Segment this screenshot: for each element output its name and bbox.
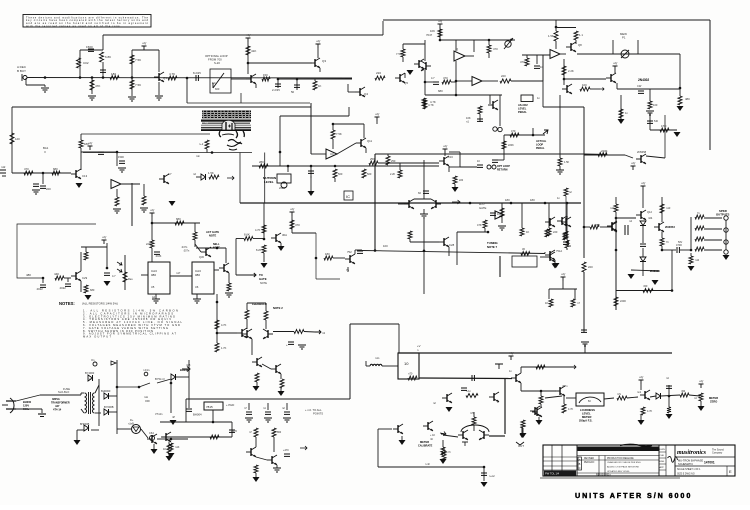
- label 2N3055: [650, 269, 660, 273]
- svg-text:+V: +V: [290, 208, 295, 212]
- svg-text:Q1: Q1: [163, 76, 167, 80]
- svg-text:220K: 220K: [601, 149, 608, 153]
- +V supply: [290, 208, 296, 217]
- resistor n13: [660, 204, 664, 213]
- label 1500: [118, 155, 124, 159]
- svg-text:752: 752: [347, 250, 352, 254]
- label U3: [330, 152, 334, 156]
- junction: [439, 39, 442, 42]
- capacitor: [461, 388, 467, 390]
- label 1n0: [567, 245, 572, 248]
- ground: [245, 418, 253, 422]
- capacitor: [98, 152, 104, 154]
- svg-text:POINTS: POINTS: [313, 412, 323, 416]
- label LFO: [479, 202, 485, 206]
- resistor: [110, 76, 119, 80]
- junction: [455, 80, 458, 83]
- transistor n1n: [393, 424, 403, 434]
- svg-text:220: 220: [376, 71, 381, 75]
- wire: [26, 84, 45, 86]
- transistor: [252, 357, 262, 367]
- svg-text:10: 10: [404, 361, 409, 366]
- label 180: [505, 198, 510, 202]
- transistor n57: [555, 386, 565, 396]
- svg-text:GATE: GATE: [479, 206, 487, 210]
- wire: [640, 384, 642, 390]
- label .0022: [59, 286, 66, 290]
- svg-text:BY000B: BY000B: [104, 405, 114, 409]
- label 50: [291, 90, 295, 94]
- label BH000: [23, 400, 32, 404]
- wire: [616, 217, 636, 219]
- ground: [225, 293, 233, 297]
- ground: [581, 342, 589, 346]
- wire: [280, 374, 282, 379]
- capacitor: [357, 251, 363, 253]
- wire: [448, 166, 450, 172]
- label 4.7: [112, 274, 116, 278]
- svg-text:C7: C7: [168, 172, 172, 176]
- ground: [278, 391, 285, 396]
- label 7.5K: [396, 52, 402, 56]
- wire: [424, 40, 426, 61]
- svg-text:1n0: 1n0: [567, 245, 572, 248]
- wire: [455, 61, 457, 95]
- svg-text:C13: C13: [82, 174, 88, 178]
- wire: [448, 247, 450, 256]
- svg-text:1.5K: 1.5K: [564, 161, 569, 164]
- wire: [584, 226, 590, 228]
- +V supply: [102, 236, 108, 245]
- junction: [263, 238, 266, 241]
- wire: [376, 121, 378, 124]
- ground: [193, 299, 201, 303]
- label n7n: [617, 393, 622, 396]
- wire top bus A: [103, 34, 383, 36]
- ground: [74, 440, 81, 445]
- wire: [574, 289, 576, 299]
- wire: [536, 55, 538, 64]
- label n50: [681, 390, 686, 393]
- wire y378: [419, 377, 512, 380]
- wire: [410, 241, 439, 243]
- wire: [650, 396, 656, 397]
- resistor 220: [582, 262, 586, 272]
- svg-text:n57n: n57n: [562, 385, 568, 388]
- label n7: [577, 301, 580, 305]
- wire: [725, 220, 727, 250]
- svg-text:2N4302: 2N4302: [638, 78, 649, 82]
- label BH000B: [80, 423, 90, 426]
- label NELL: [213, 243, 220, 246]
- wire: [460, 166, 477, 168]
- wire: [661, 197, 663, 222]
- svg-text:120: 120: [15, 137, 20, 141]
- ground: [85, 295, 92, 300]
- ground: [128, 97, 136, 101]
- transistor: [159, 174, 169, 184]
- svg-text:+470: +470: [283, 449, 289, 452]
- capacitor: [647, 121, 653, 123]
- label 4700: [676, 243, 682, 247]
- label 4.7: [431, 76, 435, 80]
- svg-text:7047: 7047: [426, 33, 433, 37]
- label LEVEL: [582, 412, 591, 416]
- wire: [668, 385, 670, 396]
- wire: [80, 49, 103, 51]
- svg-text:METER: METER: [582, 415, 591, 419]
- wire: [143, 184, 145, 196]
- label 280: [259, 160, 264, 164]
- label .007n: [183, 250, 190, 253]
- wire: [489, 95, 491, 104]
- wire: [278, 78, 352, 80]
- wire: [239, 153, 241, 204]
- transistor: [271, 364, 281, 374]
- label n4: [694, 397, 697, 400]
- svg-text:PER ECO: PER ECO: [584, 462, 595, 464]
- wire: [440, 39, 515, 41]
- ground: [32, 190, 40, 194]
- wire: [310, 103, 312, 154]
- svg-text:PEDAL: PEDAL: [518, 110, 527, 114]
- wire: [398, 203, 404, 205]
- svg-text:470: 470: [24, 167, 29, 171]
- capacitor: [88, 49, 94, 51]
- svg-text:1500: 1500: [86, 45, 93, 49]
- wire: [661, 395, 680, 396]
- svg-text:+V: +V: [561, 273, 566, 277]
- wire: [522, 428, 524, 433]
- ground: [298, 345, 306, 349]
- junction: [247, 62, 250, 65]
- wire: [186, 78, 188, 103]
- svg-text:470: 470: [493, 47, 498, 51]
- title block: [540, 444, 735, 478]
- junction: [668, 395, 671, 398]
- wire: [548, 289, 550, 299]
- junction: [79, 76, 82, 79]
- AC plug: [2, 398, 16, 413]
- transistor Q5: [395, 73, 405, 83]
- label n70: [408, 372, 413, 376]
- resistor: [695, 247, 704, 251]
- wire: [267, 403, 269, 410]
- wire right bus: [709, 20, 711, 150]
- label 220K: [601, 149, 608, 153]
- label 680: [90, 288, 95, 292]
- wire: [424, 70, 426, 95]
- wire: [526, 55, 528, 58]
- label n04: [648, 216, 653, 220]
- resistor: [521, 252, 530, 256]
- svg-text:METER: METER: [709, 396, 718, 400]
- label n4: [629, 219, 632, 223]
- wire: [95, 385, 99, 393]
- label OFF: [145, 400, 150, 403]
- svg-text:n7n: n7n: [617, 393, 622, 396]
- capacitor 4700: [677, 247, 679, 253]
- wire: [168, 442, 170, 444]
- wire faint: [81, 133, 210, 135]
- svg-text:220K: 220K: [508, 144, 514, 147]
- label 4.7K: [430, 100, 436, 104]
- wire: [566, 397, 576, 399]
- wire: [151, 248, 153, 262]
- resistor: [442, 451, 446, 460]
- label BH00n: [180, 368, 189, 372]
- transistor Q6: [414, 59, 424, 69]
- label 1.5K: [564, 161, 569, 164]
- wire: [402, 57, 404, 62]
- ground: [440, 459, 447, 464]
- wire: [253, 238, 264, 240]
- wire: [565, 196, 567, 218]
- regulator box: [204, 402, 223, 410]
- svg-text:4.7: 4.7: [112, 274, 116, 278]
- svg-text:+V: +V: [150, 209, 155, 213]
- resistor 4.7K: [262, 225, 266, 233]
- svg-text:50V: 50V: [678, 241, 683, 244]
- inductor T2: [370, 364, 382, 366]
- ground: [170, 420, 177, 425]
- junction: [332, 123, 335, 126]
- junction: [287, 165, 290, 168]
- label C13: [82, 174, 88, 178]
- wire main lamp: [577, 53, 680, 55]
- resistor: [574, 31, 578, 40]
- svg-text:150: 150: [263, 73, 268, 77]
- svg-text:4.7K: 4.7K: [568, 408, 573, 411]
- label Q: [566, 215, 568, 219]
- resistor: [401, 49, 405, 57]
- resistor n1K: [169, 443, 173, 451]
- wire: [456, 80, 472, 82]
- resistor: [255, 373, 259, 382]
- label +: [497, 401, 499, 404]
- svg-text:n.1n: n.1n: [466, 390, 471, 393]
- svg-text:n12: n12: [1, 165, 6, 169]
- label VTn2n: [155, 413, 163, 416]
- wire: [67, 278, 69, 282]
- wire: [555, 20, 557, 31]
- switch box optional loop: [210, 69, 231, 93]
- svg-text:8.2K: 8.2K: [256, 248, 262, 252]
- wire: [649, 89, 651, 101]
- label 1n: [509, 370, 512, 373]
- resistor 250: [386, 156, 390, 165]
- transistor Q12: [636, 210, 646, 220]
- label 7.5K: [135, 83, 141, 87]
- label TRANSFORMER: [51, 402, 70, 405]
- wire: [616, 290, 672, 292]
- label LEVEL: [518, 107, 527, 111]
- wire x375: [374, 154, 376, 250]
- label 752: [347, 250, 352, 254]
- wire: [443, 447, 445, 451]
- wire: [615, 306, 617, 310]
- svg-text:AS-CD2: AS-CD2: [518, 103, 528, 107]
- wire: [280, 243, 282, 246]
- op-amp U2: [550, 50, 560, 59]
- label 7n: [697, 212, 700, 215]
- resistor: [487, 45, 491, 53]
- resistor: [375, 76, 385, 80]
- wire: [216, 294, 218, 343]
- junction: [315, 257, 318, 260]
- svg-text:1K: 1K: [526, 230, 529, 234]
- wire: [277, 79, 279, 88]
- wire sense loop: [17, 224, 96, 278]
- resistor: [695, 226, 704, 230]
- ground: [283, 418, 291, 422]
- capacitor 4.7: [433, 82, 439, 84]
- label n+n2: [489, 475, 495, 478]
- diode D2: [640, 257, 646, 262]
- svg-text:BH00n: BH00n: [180, 368, 189, 372]
- wire: [248, 403, 250, 410]
- junction: [532, 134, 535, 137]
- ground: [399, 440, 406, 445]
- resistor 4.7K: [562, 404, 566, 413]
- resistor: [130, 80, 134, 89]
- resistor: [55, 276, 64, 280]
- wire: [451, 81, 456, 83]
- svg-text:1K: 1K: [163, 447, 166, 451]
- junction: [151, 222, 154, 225]
- +V supply: [639, 376, 645, 385]
- wire: [584, 344, 586, 353]
- wire: [563, 59, 565, 79]
- label 180: [530, 198, 535, 202]
- capacitor: [246, 412, 252, 414]
- svg-text:+V: +V: [417, 344, 421, 348]
- svg-text:LEVEL: LEVEL: [582, 412, 591, 416]
- svg-text:751A: 751A: [556, 249, 562, 253]
- svg-text:4.7K: 4.7K: [169, 72, 175, 76]
- wire: [347, 267, 349, 272]
- svg-text:+V: +V: [246, 34, 251, 38]
- resistor: [10, 133, 14, 144]
- resistor: [52, 171, 60, 175]
- jack pin: [724, 228, 728, 232]
- resistor 100: [294, 330, 304, 334]
- label 1K: [526, 230, 529, 234]
- svg-text:470: 470: [295, 223, 300, 227]
- label FUSE: [63, 387, 70, 391]
- wire: [102, 35, 104, 50]
- svg-text:C28: C28: [449, 243, 455, 247]
- svg-text:+V: +V: [316, 40, 321, 44]
- label S-20: [214, 61, 220, 65]
- label n57n: [562, 385, 568, 388]
- wire: [414, 198, 431, 200]
- label 380VA: [52, 397, 60, 401]
- resistor: [150, 240, 154, 248]
- label 120V: [23, 404, 29, 408]
- svg-text:2.2K: 2.2K: [568, 69, 574, 73]
- ground: [41, 88, 49, 92]
- label 4T4-14: [53, 408, 62, 412]
- svg-text:680: 680: [90, 288, 95, 292]
- junction: [42, 277, 45, 280]
- svg-text:250: 250: [391, 159, 396, 163]
- wire: [520, 383, 522, 391]
- wire: [310, 166, 312, 178]
- wire: [363, 124, 365, 138]
- svg-text:ZERO: ZERO: [710, 400, 717, 404]
- capacitor 10: [477, 165, 483, 167]
- op-amp U3: [326, 149, 337, 159]
- wire x424: [423, 219, 425, 294]
- wire: [171, 438, 188, 440]
- capacitor: [104, 273, 110, 275]
- junction: [483, 466, 486, 469]
- node: [249, 402, 287, 404]
- wire: [176, 376, 189, 378]
- transistor C13: [71, 169, 81, 179]
- svg-text:540: 540: [654, 120, 659, 123]
- resistor: [209, 175, 219, 179]
- wire: [555, 41, 557, 49]
- ground: [552, 264, 559, 269]
- +V supply: [699, 380, 705, 389]
- svg-text:REVISIONS n: REVISIONS n: [596, 473, 612, 476]
- label n08: [186, 363, 191, 367]
- wire: [153, 444, 155, 449]
- ground: [553, 263, 560, 268]
- wire: [248, 62, 312, 64]
- transistor: [530, 406, 540, 416]
- svg-text:4.7n: 4.7n: [446, 451, 451, 454]
- label NOTE 2: [273, 306, 283, 310]
- label n2: [193, 172, 196, 176]
- label 1K: [163, 447, 166, 451]
- label Q3: [322, 59, 326, 63]
- resistor: [254, 428, 258, 437]
- jack pin: [724, 240, 728, 244]
- wire: [668, 396, 670, 407]
- label n07: [55, 404, 60, 408]
- ground: [446, 407, 453, 412]
- junction: [102, 76, 105, 79]
- label n7: [244, 407, 247, 410]
- wire: [456, 232, 458, 265]
- label 180: [325, 252, 330, 256]
- wire: [314, 79, 316, 81]
- op-amp: [495, 211, 504, 219]
- svg-text:LEVEL: LEVEL: [518, 107, 527, 111]
- resistor: [442, 80, 451, 84]
- resistor: [598, 153, 607, 157]
- junction: [488, 39, 491, 42]
- junction: [170, 382, 173, 385]
- wire: [442, 440, 444, 447]
- resistor 4.7n: [441, 447, 445, 455]
- svg-text:MU-TRON BI-PHASE: MU-TRON BI-PHASE: [678, 459, 703, 463]
- label OPT LOOP: [497, 165, 510, 168]
- svg-text:220: 220: [588, 265, 593, 269]
- notes list: [83, 309, 182, 339]
- wire: [304, 331, 315, 334]
- wire: [44, 85, 46, 87]
- wire: [504, 134, 545, 136]
- ground: [498, 226, 506, 230]
- wire: [155, 294, 157, 299]
- switch circle: [93, 362, 97, 366]
- svg-text:n1n: n1n: [196, 155, 201, 158]
- transistor 752: [345, 254, 355, 264]
